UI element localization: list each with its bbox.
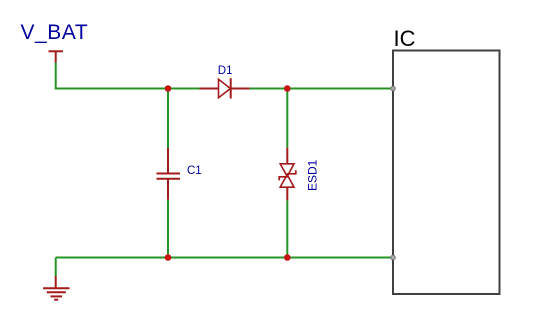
wire: bottom rail xyxy=(56,257,393,259)
svg-text:V_BAT: V_BAT xyxy=(21,21,89,44)
TVS diode ESD1 xyxy=(279,148,296,201)
svg-text:D1: D1 xyxy=(218,65,233,77)
junction top C1 xyxy=(165,85,172,92)
IC pin top xyxy=(391,86,396,91)
wire: ground drop xyxy=(55,258,57,277)
wire: C1 lower vertical xyxy=(167,200,169,258)
IC pin bottom xyxy=(391,255,396,260)
svg-text:C1: C1 xyxy=(187,165,202,177)
IC box xyxy=(393,51,500,295)
junction bottom C1 xyxy=(165,254,172,261)
ground xyxy=(43,276,69,300)
power symbol V_BAT bar xyxy=(49,51,64,62)
capacitor C1 xyxy=(157,148,181,200)
junction top ESD1 xyxy=(284,85,291,92)
diode D1 xyxy=(200,78,250,98)
wire: power stub down to top rail corner xyxy=(56,63,200,89)
wire: ESD1 lower vertical xyxy=(286,200,288,257)
svg-text:ESD1: ESD1 xyxy=(306,159,320,191)
junction bottom ESD1 xyxy=(284,254,291,261)
wire: ESD1 upper vertical xyxy=(286,89,288,148)
wire: C1 upper vertical xyxy=(167,89,169,149)
wire: top rail right of D1 to IC pin xyxy=(250,88,394,90)
svg-text:IC: IC xyxy=(394,26,416,51)
